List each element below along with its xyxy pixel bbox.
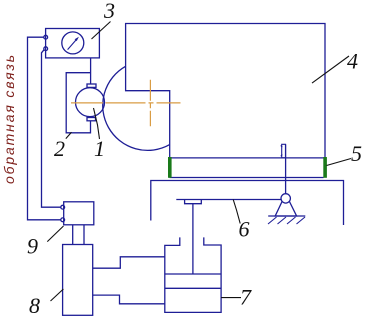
wire gauge to contact [90, 58, 92, 84]
bed [151, 181, 344, 226]
leader 3 [92, 22, 111, 40]
leader 8 [51, 289, 64, 301]
leader 5 [327, 159, 352, 166]
svg-text:1: 1 [94, 136, 105, 161]
svg-text:7: 7 [240, 285, 252, 310]
piston [165, 273, 221, 275]
pivot circle [281, 194, 290, 203]
svg-text:обратная связь: обратная связь [1, 53, 17, 184]
pipe lower [93, 295, 165, 304]
rod flange [185, 200, 202, 204]
terminal lower on gauge [44, 47, 48, 51]
wire feedback outer [28, 37, 61, 220]
leader 1 [94, 108, 100, 139]
wire feedback inner [42, 50, 61, 208]
control box 9 [64, 202, 94, 225]
green pad right 5 [323, 157, 327, 178]
bracket 2 [66, 73, 90, 133]
wheel centerline horizontal [71, 102, 181, 104]
svg-text:2: 2 [54, 136, 65, 161]
svg-text:3: 3 [103, 0, 115, 23]
beam 6 [176, 199, 281, 201]
svg-text:5: 5 [351, 141, 362, 166]
pivot hatching [268, 217, 305, 224]
leader 2 [66, 132, 72, 138]
svg-text:9: 9 [27, 234, 38, 259]
pipe upper [93, 257, 165, 268]
table top edge [170, 157, 324, 159]
leader 4 [312, 56, 349, 83]
gauge dial [62, 32, 84, 54]
pivot base [268, 215, 305, 217]
terminal upper on gauge [44, 35, 48, 39]
piston rod [192, 204, 194, 274]
contact shoe bottom [87, 118, 96, 121]
pivot triangle [275, 202, 296, 216]
green pad left 5 [168, 157, 172, 178]
svg-text:8: 8 [29, 293, 40, 318]
leader 7 [221, 297, 241, 299]
box 9 terminal lower [61, 218, 65, 222]
gauge box 3 [46, 29, 100, 58]
wheel centerline vertical [149, 80, 151, 127]
box 9 terminal upper [61, 205, 65, 209]
gauge needle [68, 37, 79, 50]
leader 6 [233, 200, 240, 224]
grinding wheel arc [103, 66, 170, 150]
cylinder 7 body [165, 237, 221, 312]
leader 9 [47, 226, 63, 242]
stem 9 to 8 [72, 225, 74, 245]
contact shoe top [87, 84, 96, 87]
svg-text:4: 4 [347, 49, 358, 74]
table stop block [282, 144, 286, 158]
machine body 4 [126, 24, 325, 159]
workpiece circle 1 [76, 88, 105, 117]
svg-text:6: 6 [239, 217, 250, 242]
link from stop to pivot [285, 144, 287, 193]
table bottom edge [170, 177, 324, 179]
pump box 8 [63, 245, 93, 316]
